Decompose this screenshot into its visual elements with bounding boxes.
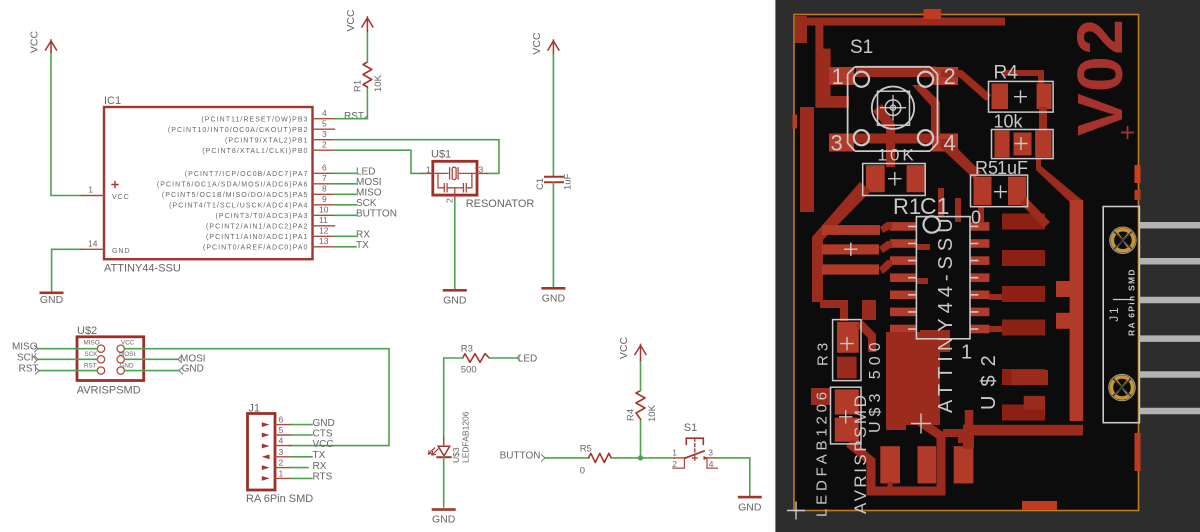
crystal internals (434, 167, 475, 195)
svg-text:V02: V02 (1064, 18, 1136, 136)
svg-text:U$3 500: U$3 500 (867, 338, 884, 434)
svg-text:GND: GND (182, 364, 204, 375)
left border tick (793, 115, 798, 129)
trace S1 left L (815, 49, 849, 108)
silk S1 outline (848, 67, 938, 151)
wire PB1 to resonator pin3 (335, 140, 500, 174)
trace pad2 to R4 (941, 70, 991, 101)
svg-text:MOSI: MOSI (356, 177, 382, 188)
svg-text:(PCINT0/AREF/ADC0)PA0: (PCINT0/AREF/ADC0)PA0 (203, 244, 309, 251)
svg-text:4: 4 (709, 459, 714, 469)
net labels left of U$2 (12, 342, 39, 375)
svg-text:3: 3 (322, 129, 327, 139)
svg-text:1: 1 (961, 342, 972, 364)
pad S1 P4 (932, 134, 958, 152)
svg-text:ATTINY44-SSU: ATTINY44-SSU (935, 213, 957, 413)
wire pin14 GND net (52, 249, 82, 291)
ground GND symbol 2 (443, 289, 467, 307)
trace S1 pad2 diag to pad4 (912, 85, 940, 136)
R3 pad top (837, 322, 859, 353)
bottom edge tab (1022, 501, 1057, 510)
pad S1 P2 (932, 67, 958, 85)
traces between pads texture (916, 244, 930, 250)
svg-text:3: 3 (831, 131, 843, 156)
svg-text:9: 9 (322, 194, 327, 204)
wire junction up to R4 (640, 419, 642, 458)
wire pin13 TX (335, 246, 357, 248)
svg-text:GND: GND (738, 501, 762, 513)
pour LED left patch (811, 388, 831, 405)
J1 pads maroon bars (1002, 214, 1045, 421)
svg-text:R1: R1 (893, 194, 921, 219)
svg-text:RST: RST (344, 111, 364, 122)
connector wires gray (1140, 225, 1200, 411)
pad S1 P3 (829, 134, 854, 152)
svg-text:U$2: U$2 (77, 325, 97, 337)
silk IC outline (916, 217, 970, 339)
svg-text:2: 2 (672, 459, 677, 469)
pad AVRISP bar2 (822, 244, 879, 254)
IC right pin numbers (319, 108, 329, 246)
svg-text:VCC: VCC (313, 439, 334, 450)
trace diag fp3 to bar (1020, 197, 1050, 228)
svg-text:R3: R3 (461, 344, 473, 355)
svg-text:13: 13 (319, 236, 329, 246)
svg-text:2: 2 (322, 140, 327, 150)
pin1 stub (674, 457, 685, 459)
gold pad top (1110, 227, 1136, 253)
IC center pour (907, 352, 940, 423)
wire pin10 BUTTON (335, 214, 357, 216)
silk S1 big circle (872, 87, 914, 129)
bottom pads (880, 446, 900, 483)
trace fp2 link down (1036, 158, 1082, 207)
switch S1 (672, 422, 717, 469)
svg-text:GND: GND (542, 293, 566, 305)
svg-text:4: 4 (944, 131, 956, 156)
silk J1 line (1113, 299, 1133, 301)
svg-text:10K: 10K (373, 74, 384, 92)
svg-text:500: 500 (461, 365, 477, 376)
trace mid right of IC (989, 294, 1002, 300)
svg-text:LEDFAB1206: LEDFAB1206 (461, 411, 471, 463)
wire U$2 MOSI (124, 358, 178, 360)
svg-text:J1: J1 (1109, 305, 1121, 321)
pad fp3 right (1008, 177, 1026, 206)
pad AVRISP bar3 (822, 264, 879, 274)
silk texts (814, 37, 1137, 517)
wire pin7 MOSI (335, 183, 357, 185)
svg-text:4: 4 (279, 436, 284, 446)
wire LED label to R3 (489, 357, 517, 359)
pad R4 left (992, 84, 1009, 110)
svg-text:MOSI: MOSI (119, 351, 135, 358)
svg-text:10: 10 (319, 205, 329, 215)
svg-text:10K: 10K (647, 404, 658, 422)
wire BUTTON to R5 (545, 457, 589, 459)
svg-text:MISO: MISO (84, 340, 100, 347)
svg-text:GND: GND (120, 363, 134, 370)
wire U$2 VCC long to J1 pin4 (124, 349, 389, 446)
wire C1 to GND (552, 182, 554, 287)
svg-text:VCC: VCC (345, 9, 357, 32)
svg-text:R3: R3 (815, 339, 832, 366)
wire VCC2 to R1 (366, 31, 368, 62)
svg-text:BUTTON: BUTTON (500, 450, 541, 461)
resistor R1 10K (353, 62, 385, 92)
svg-text:4: 4 (322, 108, 327, 118)
wire R5 to junction (611, 457, 674, 459)
svg-text:VCC: VCC (618, 336, 630, 359)
svg-text:(PCINT5/OC1B/MISO/DO/ADC5)PA5: (PCINT5/OC1B/MISO/DO/ADC5)PA5 (162, 192, 309, 199)
net labels right of U$2 (180, 354, 206, 375)
trace top rail (795, 18, 1005, 26)
svg-text:10k: 10k (994, 112, 1024, 132)
svg-text:ATTINY44-SSU: ATTINY44-SSU (104, 263, 181, 275)
svg-text:LED: LED (356, 167, 375, 178)
right border ticks (1135, 165, 1141, 183)
wire R4 to VCC4 (640, 360, 642, 390)
power VCC symbol 1 (29, 30, 57, 53)
svg-text:R5: R5 (975, 158, 998, 178)
pour mid blocks (920, 330, 950, 352)
svg-text:(PCINT6/OC1A/SDA/MOSI/ADC6)PA6: (PCINT6/OC1A/SDA/MOSI/ADC6)PA6 (157, 181, 309, 188)
gold pad bottom (1109, 374, 1135, 400)
svg-text:VCC: VCC (112, 192, 130, 201)
svg-text:RA 6Pin SMD: RA 6Pin SMD (1127, 268, 1137, 336)
pad fp2 right (1035, 131, 1052, 158)
net labels right of IC (344, 111, 397, 251)
LED U$3 diode (429, 411, 471, 466)
trace S1 center down to R1 (873, 104, 895, 167)
svg-text:R5: R5 (580, 443, 592, 454)
wire pin9 SCK (335, 204, 357, 206)
pad top edge tab (924, 9, 942, 19)
svg-text:R4: R4 (994, 63, 1019, 84)
svg-text:TX: TX (313, 450, 326, 461)
svg-text:0: 0 (580, 465, 585, 476)
resistor R5 0 (580, 443, 612, 476)
ground GND symbol 3 (541, 287, 565, 305)
wire U$2 GND (124, 370, 179, 372)
connector J1 box (246, 403, 313, 505)
schematic background (0, 0, 776, 532)
pin stubs (422, 173, 487, 200)
svg-text:GND: GND (443, 295, 467, 307)
J1 net labels (313, 418, 335, 483)
trace R4 to fp2 link (1039, 107, 1047, 132)
IC U1 ATTINY44 box (104, 95, 313, 275)
trace long horizontal to J1 bar (963, 425, 1083, 436)
pad R4 right (1037, 84, 1052, 110)
IC right pads (970, 222, 989, 333)
trace IC pads col joins (899, 333, 906, 353)
silk J1 connector outline (1103, 207, 1139, 423)
svg-text:14: 14 (88, 238, 98, 248)
resistor R3 500 (461, 344, 490, 376)
J1 pin stubs red (275, 425, 291, 479)
svg-text:LEDFAB1206: LEDFAB1206 (814, 388, 831, 517)
svg-text:8: 8 (322, 184, 327, 194)
silk S1 center circle crosshair (885, 100, 901, 116)
power VCC symbol 3 (531, 32, 559, 55)
svg-text:J1: J1 (248, 403, 260, 415)
silk IC pin1 circle (924, 216, 940, 232)
svg-text:AVRISPSMD: AVRISPSMD (77, 385, 141, 397)
power VCC symbol 2 (345, 9, 373, 32)
svg-text:(PCINT7/ICP/OC0B/ADC7)PA7: (PCINT7/ICP/OC0B/ADC7)PA7 (185, 171, 309, 178)
LED pad bottom (835, 418, 859, 442)
pad fp2 mid (1014, 133, 1032, 156)
svg-text:RST: RST (84, 363, 97, 370)
power VCC symbol 4 (618, 336, 646, 360)
svg-text:1: 1 (88, 185, 93, 195)
svg-text:(PCINT11/RESET/DW)PB3: (PCINT11/RESET/DW)PB3 (201, 116, 308, 123)
lever (684, 451, 704, 458)
junction dot (638, 455, 643, 460)
svg-text:1: 1 (832, 64, 844, 89)
J1 vertical bar (1070, 200, 1084, 421)
trace bottom U (849, 414, 941, 491)
wire PB0 to resonator pin1 (335, 150, 423, 173)
trace diag R1pad to left rail (812, 182, 871, 302)
svg-text:(PCINT8/XTAL1/CLKI)PB0: (PCINT8/XTAL1/CLKI)PB0 (202, 148, 308, 155)
capacitor C1 1uF (535, 173, 574, 190)
svg-text:6: 6 (279, 415, 284, 425)
pin3 contact arrow + stub (704, 456, 709, 460)
svg-text:RA 6Pin SMD: RA 6Pin SMD (246, 493, 313, 505)
resonator U$1 box (422, 149, 534, 211)
wire pin12 RX (335, 235, 357, 237)
svg-text:GND: GND (313, 418, 335, 429)
svg-text:R4: R4 (626, 409, 637, 421)
svg-text:RTS: RTS (313, 472, 333, 483)
red cross mark (1121, 126, 1134, 139)
pad AVRISP bar1 (822, 225, 880, 235)
svg-text:0: 0 (971, 208, 981, 228)
trace R3 top to left (820, 300, 848, 321)
svg-text:R1: R1 (353, 80, 364, 92)
wires into U$2 left (38, 349, 97, 371)
LED pad top (835, 389, 859, 414)
pad fp2 left (995, 131, 1010, 158)
svg-text:RESONATOR: RESONATOR (466, 198, 535, 210)
trace R4 top link (1004, 70, 1044, 84)
traces AVRISP to IC (880, 222, 892, 233)
label tick arrows (35, 116, 546, 462)
silk S1 pin rings (854, 72, 869, 87)
J1 wires green (291, 425, 312, 479)
svg-text:(PCINT3/T0/ADC3)PA3: (PCINT3/T0/ADC3)PA3 (216, 213, 309, 220)
wire pin6 LED (335, 172, 357, 174)
silk R3 outline (833, 320, 861, 381)
svg-text:U$3: U$3 (451, 447, 461, 463)
svg-text:IC1: IC1 (104, 95, 121, 107)
svg-text:U$1: U$1 (431, 149, 451, 161)
wire pin8 MISO (335, 193, 357, 195)
svg-text:12: 12 (319, 226, 329, 236)
svg-text:1uF: 1uF (563, 173, 574, 190)
silk IC pin stubs (908, 226, 978, 329)
pad S1 P1 (829, 67, 854, 85)
J1 pin numbers (279, 415, 284, 479)
svg-text:7: 7 (322, 173, 327, 183)
ground GND symbol 1 (40, 292, 64, 306)
svg-text:(PCINT2/AIN1/ADC2)PA2: (PCINT2/AIN1/ADC2)PA2 (206, 223, 308, 230)
svg-text:5: 5 (279, 425, 284, 435)
pin2/4 L-shapes (673, 458, 685, 468)
svg-text:VCC: VCC (121, 340, 135, 347)
silk S1 inner square (878, 91, 910, 125)
silk fp2 outline (992, 130, 1054, 159)
pad R1 left (866, 165, 885, 192)
ground GND symbol 4 (432, 508, 456, 525)
IC pin function labels (157, 116, 309, 251)
pour bottom mid (862, 300, 876, 320)
trace left border vertical (800, 107, 814, 212)
IC right pin stubs (313, 119, 335, 247)
R3 pad bottom (837, 357, 857, 379)
svg-text:2: 2 (445, 198, 455, 203)
svg-text:GND: GND (112, 246, 130, 255)
silk fp3 outline (971, 175, 1028, 207)
J1 bar stubs (1056, 281, 1070, 297)
silk R1 outline (863, 164, 926, 196)
svg-text:TX: TX (356, 240, 369, 251)
silk R1 cross (888, 172, 902, 186)
wire VCC3 to C1 (552, 54, 554, 176)
svg-text:1uF: 1uF (997, 158, 1028, 178)
svg-text:SCK: SCK (356, 198, 377, 209)
svg-text:RX: RX (313, 461, 327, 472)
IC left pin stubs (82, 196, 104, 250)
svg-text:(PCINT1/AIN0/ADC1)PA1: (PCINT1/AIN0/ADC1)PA1 (206, 234, 308, 241)
pcb background (775, 0, 1200, 532)
svg-text:U$2: U$2 (978, 346, 1000, 410)
svg-text:BUTTON: BUTTON (356, 209, 397, 220)
pad fp3 left (974, 177, 992, 206)
svg-text:1: 1 (426, 165, 431, 175)
IC left pads (890, 222, 916, 333)
pour center-left big (886, 332, 940, 430)
silk board corner cross (787, 502, 805, 520)
svg-text:2: 2 (279, 458, 284, 468)
pin arrows (262, 422, 270, 481)
svg-text:MISO: MISO (356, 188, 382, 199)
wire RST to R1 (335, 87, 368, 119)
svg-text:(PCINT4/T1/SCL/USCK/ADC4)PA4: (PCINT4/T1/SCL/USCK/ADC4)PA4 (169, 202, 308, 209)
wire R3 to LED diode (444, 358, 463, 444)
wire pin1 VCC net (51, 52, 82, 196)
connector U$2 AVRISPSMD (77, 325, 144, 397)
svg-text:SCK: SCK (85, 351, 99, 358)
svg-text:3: 3 (479, 165, 484, 175)
svg-text:1: 1 (279, 468, 284, 478)
svg-text:11: 11 (319, 215, 328, 225)
silk R4 outline (989, 81, 1054, 112)
silk AVRISP cross (844, 243, 857, 256)
wire resonator pin2 to GND (454, 200, 456, 289)
svg-text:5: 5 (322, 119, 327, 129)
wire S1 to GND5 (717, 458, 750, 496)
svg-text:(PCINT9/XTAL2)PB1: (PCINT9/XTAL2)PB1 (225, 137, 308, 144)
svg-text:S1: S1 (850, 37, 873, 58)
svg-text:RST: RST (19, 364, 39, 375)
pour top-left corner block (795, 16, 807, 43)
ground GND symbol 5 (738, 496, 762, 514)
svg-text:CTS: CTS (313, 428, 333, 439)
svg-text:10K: 10K (878, 146, 917, 165)
svg-text:VCC: VCC (531, 32, 543, 55)
wire LED to GND (443, 456, 445, 507)
resistor R4 10K (626, 391, 659, 422)
svg-text:C1: C1 (535, 178, 546, 190)
silk LED outline (831, 387, 862, 444)
pad R1 right (907, 165, 926, 192)
svg-text:3: 3 (708, 447, 713, 457)
svg-text:3: 3 (279, 447, 284, 457)
svg-text:VCC: VCC (29, 30, 41, 53)
svg-text:MISO: MISO (12, 342, 38, 353)
svg-text:2: 2 (944, 64, 956, 89)
trace S1 pads 3-4 bridge (854, 134, 932, 144)
svg-text:(PCINT10/INT0/OC0A/CKOUT)PB2: (PCINT10/INT0/OC0A/CKOUT)PB2 (168, 127, 309, 134)
svg-text:GND: GND (432, 514, 456, 526)
svg-text:1: 1 (672, 447, 677, 457)
svg-text:6: 6 (322, 163, 327, 173)
svg-text:S1: S1 (684, 422, 697, 434)
svg-text:RX: RX (356, 230, 370, 241)
trace pad4 diagonal to fp3 (940, 139, 981, 179)
svg-text:GND: GND (40, 294, 64, 306)
silk big cross U$2 (911, 414, 931, 434)
pcb board outline (794, 15, 1139, 511)
trace S1 pads 1-2 bridge (856, 67, 936, 78)
